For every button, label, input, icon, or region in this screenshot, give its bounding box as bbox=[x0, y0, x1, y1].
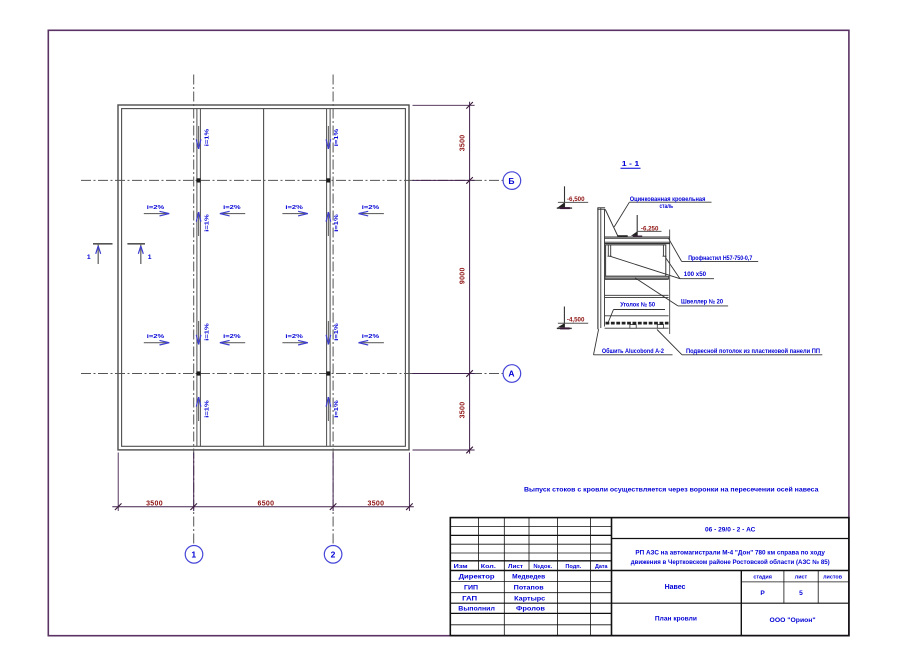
valley arrow i=1% axis2 G2 (up) bbox=[326, 212, 340, 236]
vertical list divider bbox=[783, 571, 785, 604]
axis B dash-dot horizontal bbox=[81, 179, 503, 181]
svg-text:i=1%: i=1% bbox=[334, 400, 340, 418]
svg-text:Изм: Изм bbox=[454, 564, 468, 570]
axis 2 dash-dot vertical bbox=[332, 75, 334, 546]
svg-text:РП АЗС на автомагистрали М-4 ": РП АЗС на автомагистрали М-4 "Дон" 780 к… bbox=[635, 549, 825, 556]
ceiling clip 2 bbox=[657, 325, 663, 329]
elevation mark -6,250 bbox=[631, 215, 662, 237]
svg-text:5: 5 bbox=[799, 590, 803, 597]
svg-text:Дата: Дата bbox=[595, 564, 608, 570]
label 100x50 bbox=[680, 271, 714, 279]
svg-text:Выпуск стоков с кровли осущест: Выпуск стоков с кровли осуществляется че… bbox=[524, 485, 819, 493]
drain node axis2/B bbox=[326, 178, 330, 182]
right dimension line bbox=[469, 102, 471, 454]
svg-text:-6,250: -6,250 bbox=[641, 225, 659, 232]
vertical divider main bbox=[611, 518, 613, 636]
svg-text:100 х50: 100 х50 bbox=[684, 271, 707, 278]
header row borders bbox=[450, 560, 611, 562]
valley arrow i=1% axis1 G1 (down) bbox=[196, 126, 210, 149]
svg-text:1: 1 bbox=[191, 549, 196, 559]
extension axis 2 below plan bbox=[332, 453, 334, 512]
extension axis A right of plan bbox=[413, 373, 475, 375]
svg-text:Профнастил Н57-750-0,7: Профнастил Н57-750-0,7 bbox=[688, 255, 753, 262]
angle band pair bbox=[605, 295, 669, 297]
ceiling bottom line bbox=[605, 327, 669, 329]
tick bottom dim right bbox=[406, 503, 413, 510]
roof outline inner rect bbox=[122, 109, 406, 447]
svg-text:Директор: Директор bbox=[459, 574, 495, 580]
section cut mark 1 left bbox=[87, 244, 113, 264]
header labels bbox=[454, 564, 609, 570]
bottom dimension line bbox=[112, 506, 414, 508]
axis circle A bbox=[503, 365, 521, 383]
svg-text:3500: 3500 bbox=[460, 402, 467, 419]
svg-text:Фролов: Фролов bbox=[516, 607, 545, 613]
svg-text:i=2%: i=2% bbox=[362, 205, 380, 211]
svg-text:Оцинкованная кровельная: Оцинкованная кровельная bbox=[630, 196, 706, 203]
svg-text:i=1%: i=1% bbox=[334, 129, 340, 147]
elevation mark -6,500 bbox=[557, 186, 588, 208]
svg-text:Навес: Навес bbox=[665, 584, 686, 591]
valley arrow i=1% axis2 G3 (down) bbox=[326, 321, 340, 345]
svg-text:i=2%: i=2% bbox=[147, 205, 165, 211]
vertical line col Ndok bbox=[557, 518, 559, 636]
svg-text:i=2%: i=2% bbox=[223, 205, 241, 211]
right purlin in box bbox=[663, 245, 667, 256]
svg-text:i=2%: i=2% bbox=[223, 334, 241, 340]
svg-text:Р: Р bbox=[760, 590, 765, 597]
horizontal row lines top block bbox=[450, 526, 611, 528]
roofing steel bar bbox=[617, 235, 627, 237]
roof deck lines bbox=[605, 237, 670, 243]
svg-text:Медведев: Медведев bbox=[512, 574, 545, 580]
svg-text:Уголок № 50: Уголок № 50 bbox=[620, 301, 655, 308]
valley double line at axis 2 bbox=[326, 109, 328, 447]
extension top right corner bbox=[413, 104, 475, 106]
axis circle B bbox=[503, 172, 521, 190]
svg-text:06 - 29/0 - 2 - АС: 06 - 29/0 - 2 - АС bbox=[705, 527, 755, 534]
svg-text:сталь: сталь bbox=[660, 203, 674, 210]
vertical line col Izm bbox=[477, 518, 479, 571]
valley arrow i=1% axis2 G1 (down) bbox=[326, 126, 340, 149]
svg-text:листов: листов bbox=[823, 574, 843, 580]
tick bottom dim axis 1 bbox=[190, 503, 197, 510]
svg-text:ООО "Орион": ООО "Орион" bbox=[770, 617, 816, 624]
signature rows bbox=[458, 574, 546, 612]
left purlin in box bbox=[608, 245, 612, 256]
tick right dim bottom bbox=[466, 447, 473, 454]
axis 1 dash-dot vertical bbox=[193, 75, 195, 546]
roof outline outer rect bbox=[118, 105, 409, 450]
label roofing steel bbox=[614, 196, 711, 227]
extension bottom right corner vertical bbox=[408, 453, 410, 512]
ridge center line bbox=[263, 109, 265, 447]
leader 100x50 long bbox=[610, 256, 680, 279]
svg-text:ГАП: ГАП bbox=[462, 596, 477, 602]
slope arrow i=2% row2 a (right) bbox=[144, 334, 169, 345]
svg-text:стадия: стадия bbox=[753, 574, 772, 580]
leader 100x50 short bbox=[666, 258, 680, 279]
doc number cell bottom bbox=[612, 538, 849, 540]
right cut line bbox=[669, 230, 671, 335]
tick right dim axis B bbox=[466, 177, 473, 184]
svg-text:Потапов: Потапов bbox=[514, 586, 544, 592]
svg-text:Швеллер № 20: Швеллер № 20 bbox=[681, 298, 724, 305]
svg-text:i=1%: i=1% bbox=[204, 400, 210, 418]
vertical line col List bbox=[528, 518, 530, 571]
slope arrow i=2% row1 a (right) bbox=[144, 205, 169, 216]
tick bottom dim axis 2 bbox=[330, 503, 337, 510]
stage header bottom bbox=[741, 581, 849, 583]
svg-text:i=2%: i=2% bbox=[285, 205, 303, 211]
bottom chord band bbox=[605, 276, 669, 279]
drain node axis1/A bbox=[196, 371, 200, 375]
extension axis 1 below plan bbox=[193, 453, 195, 512]
svg-text:Б: Б bbox=[508, 176, 514, 186]
slope arrow i=2% row1 b (left) bbox=[220, 205, 245, 216]
axis circle 2 bbox=[324, 546, 342, 564]
svg-text:-4,500: -4,500 bbox=[567, 316, 585, 323]
svg-text:i=2%: i=2% bbox=[147, 334, 165, 340]
label shveller 20 bbox=[635, 278, 728, 306]
slope arrow i=2% row2 b (left) bbox=[220, 334, 245, 345]
sheet frame bbox=[48, 30, 849, 635]
name row lines bbox=[450, 581, 611, 583]
section cut mark 1 right bbox=[127, 244, 151, 264]
svg-text:Картырс: Картырс bbox=[514, 596, 546, 602]
svg-text:i=1%: i=1% bbox=[204, 214, 210, 232]
elevation mark -4,500 bbox=[557, 307, 588, 329]
extension bottom right corner bbox=[413, 449, 475, 451]
svg-text:i=1%: i=1% bbox=[334, 214, 340, 232]
svg-text:№док.: №док. bbox=[533, 564, 552, 570]
stage header bbox=[753, 574, 842, 580]
valley arrow i=1% axis1 G3 (down) bbox=[196, 321, 210, 345]
svg-text:i=1%: i=1% bbox=[204, 323, 210, 341]
valley arrow i=1% axis1 G2 (up) bbox=[196, 212, 210, 236]
channel beam box bbox=[606, 245, 666, 276]
svg-text:А: А bbox=[508, 369, 514, 379]
label obshit alucobond bbox=[594, 329, 673, 355]
drain node axis2/A bbox=[326, 371, 330, 375]
svg-text:ГИП: ГИП bbox=[464, 586, 478, 592]
svg-text:1 - 1: 1 - 1 bbox=[622, 159, 640, 168]
label podvesnoy potolok bbox=[657, 330, 822, 355]
svg-text:1: 1 bbox=[87, 254, 91, 261]
valley arrow i=1% axis1 G4 (up) bbox=[196, 397, 210, 421]
label ugolok 50 bbox=[608, 301, 665, 323]
valley arrow i=1% axis2 G4 (up) bbox=[326, 397, 340, 421]
svg-text:Подп.: Подп. bbox=[565, 564, 581, 570]
vertical line col Kol bbox=[503, 518, 505, 636]
extension bottom left corner bbox=[117, 453, 119, 512]
svg-text:2: 2 bbox=[331, 549, 336, 559]
svg-text:i=2%: i=2% bbox=[285, 334, 303, 340]
svg-text:3500: 3500 bbox=[368, 500, 385, 507]
slope arrow i=2% row1 d (left) bbox=[359, 205, 384, 216]
title block outer border bbox=[450, 518, 849, 636]
svg-text:1: 1 bbox=[148, 254, 152, 261]
svg-text:9000: 9000 bbox=[460, 267, 467, 284]
parapet flashing diagonal bbox=[605, 209, 618, 236]
svg-text:Обшить Alucobond А-2: Обшить Alucobond А-2 bbox=[602, 348, 664, 355]
tick right dim axis A bbox=[466, 370, 473, 377]
extension axis B right of plan bbox=[413, 179, 475, 181]
svg-text:Подвесной потолок из пластиков: Подвесной потолок из пластиковой панели … bbox=[686, 348, 821, 355]
vertical stage divider bbox=[740, 571, 742, 636]
axis A dash-dot horizontal bbox=[81, 373, 503, 375]
svg-text:Кол.: Кол. bbox=[481, 564, 496, 570]
svg-text:движения в Чертковском районе: движения в Чертковском районе Ростовской… bbox=[631, 559, 830, 566]
parapet wall bbox=[597, 208, 605, 329]
svg-text:Лист: Лист bbox=[508, 564, 523, 570]
tick right dim top bbox=[466, 102, 473, 109]
vertical listov divider bbox=[817, 571, 819, 604]
svg-text:i=1%: i=1% bbox=[204, 129, 210, 147]
svg-text:лист: лист bbox=[795, 574, 808, 580]
slope arrow i=2% row2 d (left) bbox=[359, 334, 384, 345]
svg-text:6500: 6500 bbox=[258, 500, 275, 507]
ceiling panel dashed row bbox=[606, 322, 669, 325]
ceiling hanger line bbox=[605, 315, 669, 317]
ceiling clip 1 bbox=[630, 325, 636, 329]
svg-text:3500: 3500 bbox=[460, 135, 467, 152]
svg-text:-6,500: -6,500 bbox=[567, 196, 585, 203]
vertical line col Podp bbox=[590, 518, 592, 636]
tick bottom dim left bbox=[115, 503, 122, 510]
label profnastil bbox=[668, 238, 758, 262]
valley double line at axis 1 bbox=[196, 109, 198, 447]
svg-text:Выполнил: Выполнил bbox=[458, 607, 495, 613]
svg-text:План кровли: План кровли bbox=[655, 616, 697, 623]
svg-text:i=1%: i=1% bbox=[334, 323, 340, 341]
slope arrow i=2% row2 c (right) bbox=[282, 334, 307, 345]
drain node axis1/B bbox=[196, 178, 200, 182]
svg-text:3500: 3500 bbox=[146, 500, 163, 507]
slope arrow i=2% row1 c (right) bbox=[282, 205, 307, 216]
svg-text:i=2%: i=2% bbox=[362, 334, 380, 340]
axis circle 1 bbox=[185, 546, 203, 564]
